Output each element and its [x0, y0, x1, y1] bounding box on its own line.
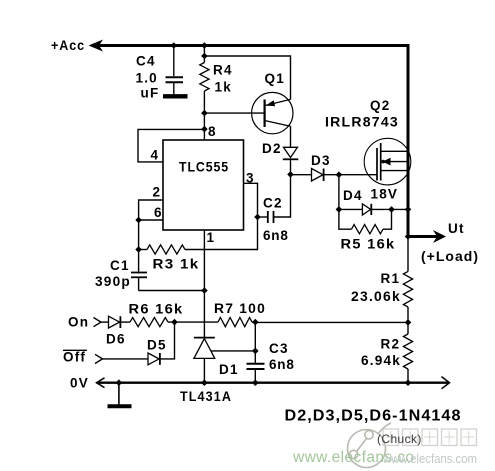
transistor Q1 emitter with arrow	[266, 99, 291, 106]
svg-text:(Chuck): (Chuck)	[377, 432, 422, 446]
diode D6	[109, 316, 121, 328]
svg-text:2: 2	[153, 185, 161, 200]
node R2 bottom on 0V rail	[405, 379, 412, 386]
wire D2 node to D3	[291, 174, 312, 176]
Off input arrow	[95, 354, 103, 363]
label R7 100	[214, 301, 266, 316]
wire R4 top stub	[203, 56, 205, 63]
wire Off to D5	[103, 358, 149, 360]
resistor R1	[403, 271, 412, 307]
diode D5	[148, 353, 160, 365]
svg-text:D4: D4	[343, 188, 363, 203]
node C3 bottom on 0V	[252, 379, 259, 386]
wire D6 to R6	[120, 321, 130, 323]
diode D4	[362, 204, 371, 215]
wire pin2/6 down to C1/R3	[138, 220, 140, 250]
label C4	[136, 54, 156, 69]
label 1.0	[136, 71, 158, 86]
wire R5 left leg	[339, 209, 352, 229]
resistor R3	[147, 245, 185, 254]
svg-text:4: 4	[151, 148, 159, 163]
transistor Q2 source stub	[381, 170, 408, 172]
svg-text:Ut: Ut	[448, 221, 465, 236]
wire rail to R4 node	[203, 46, 205, 57]
wire C2 left lead	[258, 216, 268, 218]
wire D3 to Q2 gate	[324, 174, 377, 176]
ground symbol	[108, 383, 132, 407]
svg-text:IRLR8743: IRLR8743	[325, 115, 399, 130]
label R5 16k	[341, 237, 396, 252]
label C3	[269, 341, 289, 356]
transistor Q2 gate bar	[376, 148, 378, 181]
node R4 top / Q1 emitter branch	[201, 53, 208, 60]
wire thick right vertical (+Acc to Q2/Ut)	[407, 44, 410, 238]
node ref/C3	[252, 348, 259, 355]
node D4 right	[388, 206, 395, 213]
label pin 3	[246, 171, 254, 186]
wire D1 anode to 0V	[203, 358, 205, 382]
svg-text:18V: 18V	[371, 187, 399, 202]
diode D1 TL431 cathode bar	[194, 337, 215, 339]
label D4	[343, 188, 363, 203]
svg-text:6n8: 6n8	[269, 357, 295, 372]
svg-text:0V: 0V	[70, 376, 89, 391]
resistor R2	[403, 334, 412, 369]
wire gate node down to D4	[338, 175, 340, 210]
svg-text:Q2: Q2	[370, 98, 390, 113]
wire pin 2 lead	[139, 200, 163, 220]
node R4 top on rail	[201, 42, 208, 49]
svg-text:8: 8	[208, 124, 216, 139]
label pin 8	[208, 124, 216, 139]
label 23.06k	[351, 289, 401, 304]
capacitor C1	[131, 250, 147, 291]
wire R6 to row	[168, 321, 218, 323]
label 0V	[70, 376, 89, 391]
wire D1 ref line	[212, 350, 256, 352]
wire pin 3 lead	[244, 183, 258, 217]
svg-text:D5: D5	[147, 338, 167, 353]
transistor Q2 drain stub	[381, 150, 408, 152]
resistor R6	[130, 318, 168, 327]
On input arrow	[94, 318, 102, 327]
svg-text:www.elecfans.com: www.elecfans.com	[382, 452, 477, 466]
wire 0V rail	[97, 382, 450, 384]
diode D3	[312, 169, 324, 182]
node D4 left	[336, 206, 343, 213]
wire pin 8 lead	[203, 113, 205, 140]
label diode note	[285, 408, 462, 425]
label pin 1	[207, 230, 215, 245]
label 390p	[95, 274, 131, 289]
label R6 16k	[129, 302, 184, 317]
wire D5 up to R6 node	[160, 322, 175, 359]
node Q1 base / R4 bottom	[201, 110, 208, 117]
svg-text:TL431A: TL431A	[180, 389, 232, 404]
svg-text:uF: uF	[141, 86, 160, 101]
label C3 6n8	[269, 357, 295, 372]
label D3	[311, 153, 331, 168]
wire D4 left lead	[339, 208, 363, 210]
node C1/R3 junction	[135, 246, 142, 253]
wire pin 4 loop	[138, 129, 204, 162]
label R2	[381, 337, 401, 352]
wire C4 top lead	[173, 46, 175, 77]
svg-text:R5 16k: R5 16k	[341, 237, 396, 252]
label +Acc	[51, 38, 85, 53]
wire D4 right lead	[371, 208, 391, 210]
label R3 1k	[153, 257, 200, 272]
label Q2	[370, 98, 390, 113]
transistor Q1 base bar	[264, 100, 266, 128]
wire Ut to R1	[407, 237, 409, 272]
node pin 2/6 junction	[135, 217, 142, 224]
transistor Q2 channel bar	[380, 143, 382, 181]
wire C1 bottom to pin1 column	[139, 290, 205, 292]
label TL431A	[180, 389, 232, 404]
label uF	[141, 86, 160, 101]
wire +Acc top rail (thick)	[97, 44, 410, 47]
wire C3 column upper	[254, 322, 256, 363]
svg-text:TLC555: TLC555	[179, 160, 229, 175]
+Acc rail arrowhead	[89, 40, 104, 52]
node C2 left / pin3	[254, 214, 261, 221]
svg-text:C1: C1	[110, 258, 130, 273]
label D2	[262, 141, 282, 156]
resistor R4	[200, 63, 209, 92]
wire On to D6	[101, 321, 109, 323]
capacitor C3	[247, 364, 265, 383]
svg-text:Off: Off	[63, 350, 86, 365]
label 1k	[215, 80, 232, 95]
capacitor C4	[163, 77, 188, 96]
label TLC555	[179, 160, 229, 175]
label C2	[263, 196, 283, 211]
svg-text:Q1: Q1	[265, 71, 285, 86]
watermark chinese text	[383, 429, 477, 446]
transistor Q2 body stub with arrow	[381, 158, 408, 166]
label C2 6n8	[263, 228, 289, 243]
svg-text:6: 6	[154, 205, 162, 220]
wire R5 right leg	[383, 209, 392, 229]
wire R3 left lead	[139, 249, 147, 251]
svg-text:3: 3	[246, 171, 254, 186]
label 6.94k	[361, 353, 401, 368]
wire R4 bottom to base node	[203, 91, 205, 113]
node ground on 0V rail	[116, 379, 123, 386]
node Ut junction	[405, 233, 412, 240]
label Q1	[265, 71, 285, 86]
node pin 8	[201, 126, 208, 133]
svg-text:D2,D3,D5,D6-1N4148: D2,D3,D5,D6-1N4148	[285, 408, 462, 425]
watermark logo circle	[348, 423, 392, 468]
wire C2 right to D2 node	[274, 174, 291, 217]
0V left arrow	[97, 378, 105, 388]
svg-text:390p: 390p	[95, 274, 131, 289]
0V right arrow	[442, 377, 450, 389]
svg-text:D2: D2	[262, 141, 282, 156]
svg-text:R6 16k: R6 16k	[129, 302, 184, 317]
svg-text:6n8: 6n8	[263, 228, 289, 243]
op-amp U1 TLC555 box	[163, 140, 244, 230]
svg-text:On: On	[68, 315, 89, 330]
wire pin 6 lead	[139, 219, 163, 221]
label D5	[147, 338, 167, 353]
label IRLR8743	[325, 115, 399, 130]
label pin 2	[153, 185, 161, 200]
node R6/D5 junction	[171, 319, 178, 326]
svg-text:C3: C3	[269, 341, 289, 356]
svg-text:1k: 1k	[215, 80, 232, 95]
wire R2 to 0V rail	[407, 369, 409, 383]
resistor R7	[218, 318, 252, 327]
label Off with overline	[63, 350, 87, 365]
wire Ut arrow (thick)	[407, 230, 447, 243]
svg-text:(+Load): (+Load)	[421, 249, 479, 264]
svg-text:+Acc: +Acc	[51, 38, 85, 53]
diode D1 TL431 triangle	[194, 339, 215, 359]
wire Q1 base	[204, 112, 264, 114]
wire Q1 collector to D2	[290, 126, 292, 147]
transistor Q1 collector	[266, 121, 291, 127]
node R1/R2 divider	[405, 319, 412, 326]
watermark green www	[292, 449, 414, 466]
capacitor C2	[268, 211, 274, 223]
svg-text:D6: D6	[106, 332, 126, 347]
svg-text:D3: D3	[311, 153, 331, 168]
node D2/D3/C2 junction	[287, 171, 294, 178]
wire pin 1 lead	[203, 230, 205, 338]
wire divider row to R7/C3 column	[255, 321, 408, 323]
svg-text:R4: R4	[213, 63, 233, 78]
label pin 4	[151, 148, 159, 163]
node D1 anode on 0V rail	[201, 379, 208, 386]
wire D4 node to thick rail	[392, 208, 409, 210]
svg-text:1.0: 1.0	[136, 71, 158, 86]
transistor Q1 circle	[252, 92, 293, 133]
wire R1 to node	[407, 307, 409, 322]
label C1	[110, 258, 130, 273]
label Ut	[448, 221, 465, 236]
svg-text:R7 100: R7 100	[214, 301, 266, 316]
label D6	[106, 332, 126, 347]
svg-text:23.06k: 23.06k	[351, 289, 401, 304]
wire node to R2	[407, 322, 409, 334]
label 18V	[371, 187, 399, 202]
svg-text:1: 1	[207, 230, 215, 245]
transistor Q2 circle	[364, 138, 411, 185]
watermark gray www	[382, 452, 477, 466]
node R7/C3 junction	[252, 319, 259, 326]
node gate / D4 branch	[336, 171, 343, 178]
wire R7 to C3 node	[252, 321, 255, 323]
label D1	[219, 362, 239, 377]
wire R4 node to Q1 emitter column	[204, 56, 290, 100]
diode D2	[283, 147, 299, 174]
resistor R5	[352, 225, 384, 234]
wire C2 node down to R3 row	[185, 217, 258, 250]
svg-text:D1: D1	[219, 362, 239, 377]
svg-text:R2: R2	[381, 337, 401, 352]
node C4 top on rail	[171, 42, 178, 49]
watermark (Chuck)	[377, 432, 422, 446]
label R1	[381, 271, 401, 286]
label (+Load)	[421, 249, 479, 264]
label pin 6	[154, 205, 162, 220]
svg-text:C4: C4	[136, 54, 156, 69]
svg-text:C2: C2	[263, 196, 283, 211]
svg-text:R3 1k: R3 1k	[153, 257, 200, 272]
node D4 row on thick rail	[405, 206, 412, 213]
label R4	[213, 63, 233, 78]
node C1 bottom on pin1 column	[201, 287, 208, 294]
svg-text:R1: R1	[381, 271, 401, 286]
svg-text:6.94k: 6.94k	[361, 353, 401, 368]
label On	[68, 315, 89, 330]
